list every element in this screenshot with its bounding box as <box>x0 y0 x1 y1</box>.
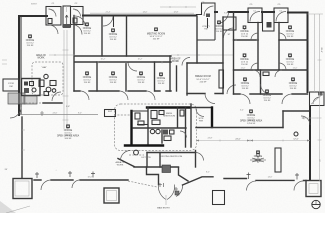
svg-text:EXISTING RESTROOM: EXISTING RESTROOM <box>160 156 183 158</box>
svg-text:162 SF: 162 SF <box>153 38 160 40</box>
svg-text:28'-6": 28'-6" <box>320 47 322 53</box>
svg-text:RM: RM <box>204 29 208 31</box>
svg-text:HTR: HTR <box>199 121 204 123</box>
svg-text:"LAB": "LAB" <box>41 66 47 69</box>
svg-text:32'-0": 32'-0" <box>88 177 93 179</box>
svg-text:24'-6": 24'-6" <box>53 113 58 115</box>
svg-text:224 SF: 224 SF <box>200 82 207 84</box>
svg-text:14'-0": 14'-0" <box>143 12 148 14</box>
svg-text:11'-0": 11'-0" <box>241 68 246 70</box>
svg-text:CL.: CL. <box>279 11 283 13</box>
svg-text:STOR: STOR <box>8 83 14 85</box>
svg-text:EXIST: EXIST <box>31 4 37 6</box>
svg-text:24'-8": 24'-8" <box>208 138 213 140</box>
svg-text:14'-6": 14'-6" <box>268 177 273 179</box>
svg-text:10'-2": 10'-2" <box>101 59 106 61</box>
svg-text:24'-0": 24'-0" <box>235 139 241 141</box>
svg-text:CL.: CL. <box>75 10 79 12</box>
svg-text:9'-6": 9'-6" <box>66 106 70 108</box>
svg-text:BREAK ROOM: BREAK ROOM <box>195 75 211 78</box>
svg-text:RM: RM <box>9 86 13 88</box>
svg-text:12'-0": 12'-0" <box>293 139 299 141</box>
svg-text:WORK: WORK <box>117 165 124 167</box>
svg-text:8'-2": 8'-2" <box>206 172 210 174</box>
svg-text:1,250 SF: 1,250 SF <box>247 123 256 125</box>
svg-text:CL.: CL. <box>51 10 55 12</box>
svg-text:RESTROOM: RESTROOM <box>163 116 175 118</box>
svg-text:8'-0": 8'-0" <box>78 113 82 115</box>
svg-text:12'-8": 12'-8" <box>174 12 179 14</box>
svg-text:9'-6": 9'-6" <box>224 13 228 15</box>
svg-text:SUP: SUP <box>108 111 113 113</box>
svg-text:6'-4": 6'-4" <box>240 110 244 112</box>
svg-text:MAIN ENTRY: MAIN ENTRY <box>157 207 170 210</box>
svg-text:CL.: CL. <box>253 11 257 13</box>
svg-text:900 SF: 900 SF <box>65 138 72 140</box>
svg-text:10'-2": 10'-2" <box>138 59 143 61</box>
svg-text:21'-4": 21'-4" <box>106 12 111 14</box>
svg-text:11'-0": 11'-0" <box>293 68 298 70</box>
svg-text:LIFT STN: LIFT STN <box>142 157 151 159</box>
